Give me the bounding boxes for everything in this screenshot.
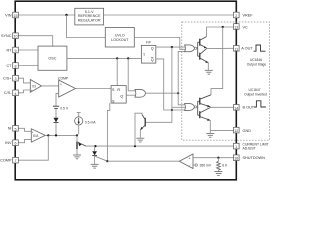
wire A-gate output to totem bases [197,47,198,49]
svg-text:+: + [60,83,62,87]
svg-text:COMP: COMP [0,159,12,163]
svg-text:11: 11 [234,47,238,51]
svg-text:0.5 V: 0.5 V [60,106,69,110]
svg-text:F/F: F/F [146,41,151,45]
wire branch down to B-gate top input [178,93,186,105]
svg-text:SHUTDOWN: SHUTDOWN [243,156,266,160]
svg-text:Q: Q [151,46,154,50]
wire regulator output to VREF pin [104,14,234,16]
wire E/A output line [45,134,77,136]
node D1 to E/A line [55,134,57,136]
wire NI to error amp [18,128,31,131]
wire 0.5V source to diode D1 [55,108,57,117]
wire VC rail down to B totem collector [211,27,223,95]
B totem base rail [197,101,199,115]
pin VIN 15 [5,12,18,18]
svg-text:Q: Q [120,95,123,99]
svg-text:7: 7 [15,159,17,163]
wire latch Q to OR gate [126,94,135,96]
pin VC 13 [234,24,249,30]
svg-text:14: 14 [234,106,238,110]
B totem top transistor [200,95,211,108]
pin NI 5 [8,126,19,132]
ground A totem [205,70,213,74]
pulse-steering latch S/R [111,86,126,104]
wire branch up to A-gate bottom input [178,51,186,93]
node Q2 collector to C/L line [134,145,136,147]
svg-text:350 mV: 350 mV [200,164,212,168]
svg-text:Output Inverted: Output Inverted [244,92,267,96]
svg-text:10: 10 [14,35,18,39]
wire B-gate output to totem bases [197,106,198,108]
wire COMP pin loop [18,135,48,160]
dashed output-stage box [182,22,270,140]
pin CURRENT LIMIT ADJUST 1 [234,143,269,151]
wire Q node down to B-gate / clamp base [146,47,172,122]
ground B totem [206,133,214,137]
pin CT 8 [6,63,18,69]
svg-text:REGULATOR: REGULATOR [78,18,101,22]
shutdown comparator [179,154,193,169]
svg-text:16: 16 [234,157,238,161]
wire comparator output line [107,160,179,162]
pin GND 12 [234,127,252,133]
svg-text:5: 5 [15,127,17,131]
svg-text:UC1847: UC1847 [248,88,260,92]
svg-text:R: R [117,88,120,92]
A totem bottom transistor [200,49,209,70]
flip-flop F/F [141,41,155,64]
diode D2 [92,146,97,164]
wire B output node to B OUT pin [210,106,233,109]
svg-text:6 K: 6 K [222,164,228,168]
pin RT 9 [7,47,19,53]
clamp transistor Q1 [77,135,86,154]
svg-text:15: 15 [14,14,18,18]
resistor 6k [217,158,229,172]
0.5 V offset source [53,106,69,110]
node shutdown output [106,160,108,162]
wire X3 output to PWM comparator [42,85,59,87]
svg-text:13: 13 [234,26,238,30]
node VC rail [222,26,224,28]
pin B OUT 14 [234,105,255,111]
PWM comparator [58,77,76,97]
wire clock down to OR gate input [128,58,135,90]
svg-text:Output Stage: Output Stage [247,63,267,67]
wire current limit adjust line to Q1 base [86,145,234,147]
svg-text:0.5 mA: 0.5 mA [85,120,96,124]
wire VIN to reference regulator [18,14,75,16]
wire clock down to latch R input [116,58,118,85]
wire SHUTDOWN pin to comparator [193,157,234,159]
svg-text:VIN: VIN [5,13,12,17]
wire SYNC to OSC top [18,36,52,46]
NOR gate B [185,104,197,111]
svg-text:2: 2 [235,14,237,18]
waveform A OUT [254,45,266,51]
pin C/S- 4 [4,90,18,96]
svg-text:GND: GND [243,129,252,133]
svg-text:6: 6 [15,142,17,146]
0.5 mA current source [75,112,97,134]
svg-text:B OUT: B OUT [243,106,255,110]
svg-text:+: + [32,130,34,134]
ground under D2 [91,164,99,168]
error amplifier E/A [31,129,45,142]
svg-text:9: 9 [15,49,17,53]
350 mV reference [193,164,212,168]
svg-text:Q: Q [151,58,154,62]
wire UVLO output to A-gate middle input [134,38,186,50]
clamp transistor Q2 [135,113,145,146]
pin COMP 7 [0,157,18,163]
NOR gate A [185,45,197,52]
pin A OUT 11 [234,46,254,52]
svg-text:COMP: COMP [58,77,69,81]
svg-text:+: + [31,88,33,92]
svg-text:X3: X3 [32,84,36,88]
wire C/S+ to X3 amp [18,78,30,83]
wire F/F Q to A-gate [156,46,187,48]
svg-text:4: 4 [15,92,17,96]
svg-text:NI: NI [8,127,12,131]
5.1-V reference regulator U-REF [75,8,104,25]
A totem top transistor [200,37,207,49]
waveform B OUT [254,101,266,107]
ground under Q1 [73,155,81,159]
svg-text:3: 3 [15,77,17,81]
svg-text:ADJUST: ADJUST [243,147,256,151]
svg-text:CT: CT [6,64,12,68]
ground under 6k [214,172,222,176]
outer IC boundary box [15,1,236,180]
svg-text:UVLO: UVLO [115,33,125,37]
wire INV to error amp [18,139,31,142]
node current source / clamp transistor [76,134,78,136]
pin INV 6 [5,140,18,146]
A totem base rail [197,42,199,56]
node on VIN line [65,14,67,16]
svg-text:8: 8 [15,65,17,69]
svg-text:UC1846: UC1846 [250,58,262,62]
wire A output node to A OUT pin [207,47,234,50]
wire shutdown comparator output to latch second S [107,103,109,161]
svg-text:A OUT: A OUT [241,47,253,51]
wire F/F Qbar down to B-gate bottom input [156,59,187,110]
svg-text:RT: RT [7,48,13,52]
wire D2 cathode diagonal to shutdown node [95,156,107,161]
wire C/S- to X3 amp [18,90,30,93]
wire VC rail [207,27,234,37]
wire PWM comp minus input down to 0.5V source [56,93,59,105]
wire OSC clock line to F/F [67,57,141,59]
diode D1 [54,118,59,123]
svg-text:VREF: VREF [243,13,254,17]
pin VREF 2 [234,12,254,18]
pin SHUTDOWN 16 [234,155,266,161]
svg-text:INV: INV [5,141,12,145]
wire PWM comparator output to latch S [76,88,112,90]
node OR output branch [177,92,179,94]
node 6k resistor [217,157,219,159]
wire OR output to gates [146,92,179,94]
blanking OR gate [135,89,146,97]
wire RT to OSC [18,49,38,51]
node Q line [171,46,173,48]
wire B emitter to GND pin [210,130,233,132]
ground under Q2 [136,138,144,142]
wire D1 to E/A output line [55,123,57,136]
svg-text:C/S+: C/S+ [3,77,12,81]
svg-text:OSC: OSC [48,57,56,61]
oscillator OSC [38,46,67,70]
UVLO lockout block [105,28,134,48]
svg-text:12: 12 [234,129,238,133]
pin C/S+ 3 [3,75,18,81]
svg-text:LOCKOUT: LOCKOUT [111,38,129,42]
wire CT to OSC [18,65,38,67]
svg-text:E/A: E/A [33,134,39,138]
node on vertical at B-gate input [171,109,173,111]
svg-text:VC: VC [243,25,249,29]
svg-text:1: 1 [235,145,237,149]
node clock to latch R [116,57,118,59]
wire B-gate middle input stub [172,106,187,108]
svg-text:C/S-: C/S- [4,91,12,95]
svg-text:SYNC: SYNC [1,34,12,38]
node COMP feedback [47,134,49,136]
node clock to blanking OR gate [127,57,129,59]
node D2 anode [94,145,96,147]
current sense amplifier X3 [30,80,41,93]
wire VIN node down to UVLO input [67,15,106,38]
pin SYNC 10 [1,33,18,39]
B totem bottom transistor [200,108,211,131]
